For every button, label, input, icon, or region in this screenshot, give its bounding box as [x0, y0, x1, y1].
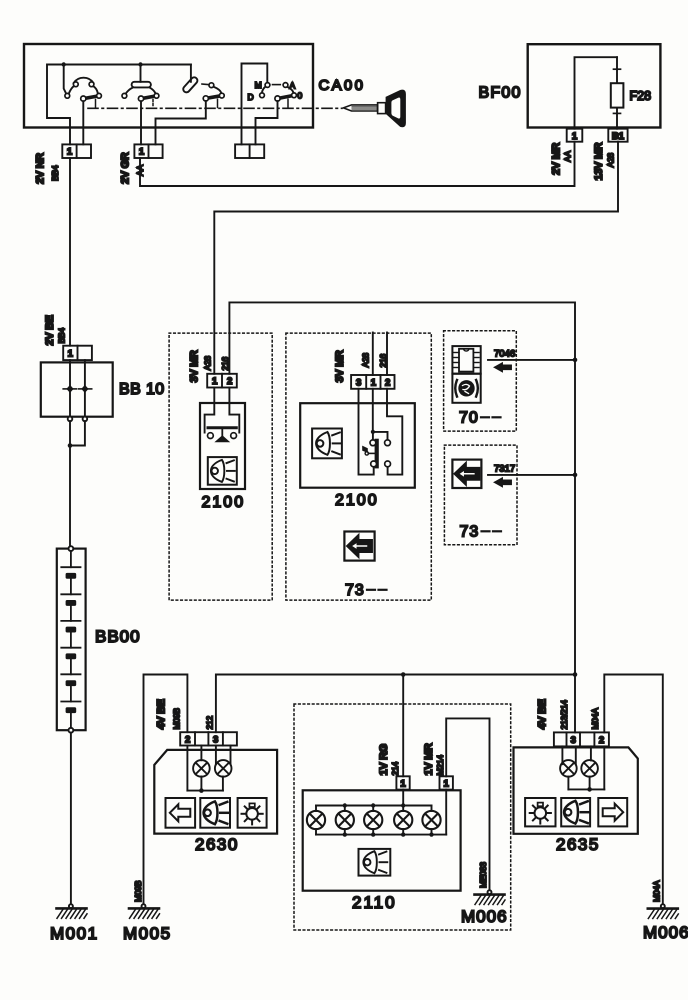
- svg-text:2110: 2110: [352, 893, 397, 912]
- svg-text:216: 216: [378, 353, 388, 367]
- wire bus to lamp units: [216, 672, 577, 732]
- svg-text:2V GR: 2V GR: [120, 152, 132, 184]
- connector 2 under CA00 (2V GR AA): [120, 144, 163, 184]
- icon side lamp in 2635: [525, 798, 555, 826]
- svg-text:2V BE: 2V BE: [44, 315, 56, 345]
- svg-text:4V BE: 4V BE: [537, 699, 549, 729]
- svg-text:1: 1: [67, 147, 73, 158]
- connector 4 under CA00: [235, 144, 264, 158]
- svg-text:M214: M214: [435, 755, 445, 776]
- svg-text:BF00: BF00: [479, 85, 522, 102]
- svg-text:2: 2: [185, 735, 190, 746]
- svg-text:3V MR: 3V MR: [334, 350, 346, 382]
- svg-text:1V RG: 1V RG: [378, 744, 390, 776]
- svg-text:2: 2: [227, 376, 232, 387]
- svg-text:A28: A28: [361, 353, 371, 368]
- connector 1 under CA00 (2V NR BB4): [35, 144, 92, 184]
- switch 2100 left box: [200, 388, 245, 512]
- icon lighting in 2110: [359, 849, 391, 876]
- wire 7046 to bus: [488, 349, 577, 372]
- dashed enclosure switch 2100 right: [286, 333, 431, 600]
- svg-text:1V MR: 1V MR: [423, 743, 435, 775]
- svg-text:M04A: M04A: [652, 880, 662, 902]
- svg-text:2: 2: [385, 377, 390, 388]
- wire M005 ground loop: [144, 675, 188, 907]
- battery BB00: [57, 546, 141, 732]
- ground M006 right (M04A): [643, 880, 688, 942]
- connector of 2100 left (1 2): [189, 350, 237, 387]
- switch contact set 1: [64, 65, 102, 145]
- icon lighting in 2635: [561, 798, 590, 826]
- svg-text:216: 216: [220, 356, 230, 370]
- ground M005: [123, 880, 172, 943]
- svg-text:2630: 2630: [195, 835, 239, 854]
- turn signal icon 73 in dashed box: [344, 532, 386, 600]
- ignition switch unit CA00: [24, 44, 365, 128]
- turn signal icon 7317: [452, 460, 501, 541]
- connector pin 1 of 2110 (1V MR M214): [423, 743, 453, 790]
- svg-text:A28: A28: [203, 356, 213, 371]
- wire 2V MR: CA00 conn2 to BF00 pin1: [140, 142, 575, 186]
- switch contact set 4 (key positions M A D 0): [242, 64, 303, 145]
- switch 2100 right box: [300, 389, 415, 509]
- svg-text:13V MR: 13V MR: [593, 142, 605, 180]
- lamp cluster 2110: [303, 790, 461, 912]
- svg-text:1: 1: [444, 779, 450, 790]
- connector pin 1 of 2110 (1V RG 214): [378, 744, 410, 790]
- svg-text:2635: 2635: [556, 835, 600, 854]
- wire BF00 internal: [575, 57, 618, 129]
- svg-text:A28: A28: [606, 153, 616, 168]
- svg-text:3: 3: [571, 735, 576, 746]
- wire 1V MR ground loop to ME083: [446, 718, 489, 892]
- svg-text:70: 70: [459, 410, 479, 427]
- svg-text:2100: 2100: [335, 492, 379, 509]
- switch contact set 2: [122, 65, 159, 145]
- svg-text:M006: M006: [461, 907, 508, 926]
- control unit icon 7046: [452, 346, 480, 374]
- svg-text:D: D: [248, 92, 254, 102]
- dashed enclosure 73: [444, 445, 517, 545]
- svg-text:1: 1: [572, 131, 578, 142]
- lighting icon in 2100 right: [312, 429, 342, 459]
- svg-text:AA: AA: [563, 151, 573, 162]
- svg-text:4V BE: 4V BE: [156, 699, 168, 729]
- wire M04A ground loop 2635: [604, 675, 663, 907]
- svg-text:73: 73: [345, 582, 365, 599]
- gauge icon 70: [452, 374, 500, 427]
- connector of 2100 right (3 1 2): [334, 333, 395, 389]
- wire CA00 conn1 down to BB10: [69, 158, 71, 346]
- svg-text:F28: F28: [630, 89, 652, 103]
- mechanical link dash-dot line: [88, 107, 342, 109]
- svg-text:M001: M001: [50, 924, 99, 943]
- svg-text:A: A: [290, 81, 296, 91]
- icon lighting in 2630: [200, 798, 230, 828]
- wire BB00 to ground M001: [70, 733, 72, 907]
- svg-text:BB4: BB4: [50, 165, 60, 181]
- svg-text:M006: M006: [643, 923, 688, 942]
- switch contact set 3: [156, 65, 225, 145]
- connector of 2635 (- 3 - 2): [537, 699, 609, 746]
- svg-text:ME083: ME083: [478, 862, 488, 888]
- connector pin 1 of BF00 (2V MR AA): [551, 129, 583, 175]
- icon side lamp in 2630: [238, 798, 267, 828]
- svg-text:1: 1: [400, 779, 406, 790]
- svg-text:3: 3: [356, 377, 361, 388]
- svg-text:2V MR: 2V MR: [551, 143, 563, 175]
- svg-text:1: 1: [212, 376, 218, 387]
- svg-text:BB00: BB00: [95, 627, 141, 646]
- dashed enclosure switch 2100 left: [169, 333, 272, 600]
- wire bus from 2100 pin2 to right column: [229, 302, 575, 732]
- wire to 2110 pin 1: [402, 675, 404, 777]
- connector 1 above BB10 (2V BE BB4): [44, 315, 92, 360]
- ignition key symbol: [343, 90, 406, 128]
- connector of 2630 (2 - 3 -): [156, 699, 237, 745]
- svg-text:2V NR: 2V NR: [35, 153, 47, 184]
- svg-text:1: 1: [371, 377, 377, 388]
- svg-text:M: M: [255, 80, 262, 90]
- junction unit BB10: [41, 360, 165, 421]
- svg-text:3: 3: [213, 735, 218, 746]
- svg-text:0: 0: [298, 91, 303, 101]
- svg-text:BB 10: BB 10: [119, 381, 165, 398]
- wire 13V MR: BF00 pin B1 to switch 2100: [214, 142, 618, 374]
- svg-text:M09B: M09B: [172, 708, 182, 730]
- icon left arrow in 2630: [166, 798, 196, 828]
- svg-text:2: 2: [599, 735, 604, 746]
- svg-text:3V MR: 3V MR: [189, 350, 201, 382]
- svg-text:M04A: M04A: [590, 708, 600, 730]
- fuse box BF00: [479, 44, 661, 127]
- svg-text:CA00: CA00: [319, 77, 366, 94]
- svg-text:B1: B1: [612, 131, 625, 142]
- icon right arrow in 2635: [598, 798, 627, 826]
- svg-text:7317: 7317: [494, 464, 515, 475]
- svg-text:2100: 2100: [202, 494, 246, 511]
- svg-text:M005: M005: [123, 924, 172, 943]
- svg-text:M09B: M09B: [133, 880, 143, 902]
- dashed enclosure M006 / 2110: [294, 704, 511, 930]
- svg-text:BB4: BB4: [57, 328, 67, 344]
- wire BB10 to BB00: [68, 421, 85, 546]
- lamp unit 2635: [514, 746, 638, 854]
- svg-text:213/214: 213/214: [559, 700, 569, 730]
- ground M006 center (ME083): [461, 862, 508, 926]
- wire 7317 to bus: [488, 464, 577, 487]
- wire supply bus inside CA00: [47, 62, 191, 144]
- svg-text:1: 1: [139, 147, 145, 158]
- ground M001: [50, 904, 99, 943]
- svg-text:1: 1: [68, 349, 74, 360]
- lamp unit 2630: [154, 746, 277, 855]
- svg-text:214: 214: [390, 761, 400, 775]
- connector pin B1 of BF00 (13V MR A28): [593, 129, 628, 181]
- lighting icon in 2100 left: [208, 457, 237, 485]
- svg-text:7046: 7046: [494, 349, 515, 360]
- dashed enclosure 70: [444, 331, 517, 431]
- svg-text:73: 73: [460, 524, 480, 541]
- fuse F28: [611, 57, 651, 129]
- svg-text:212: 212: [205, 715, 215, 729]
